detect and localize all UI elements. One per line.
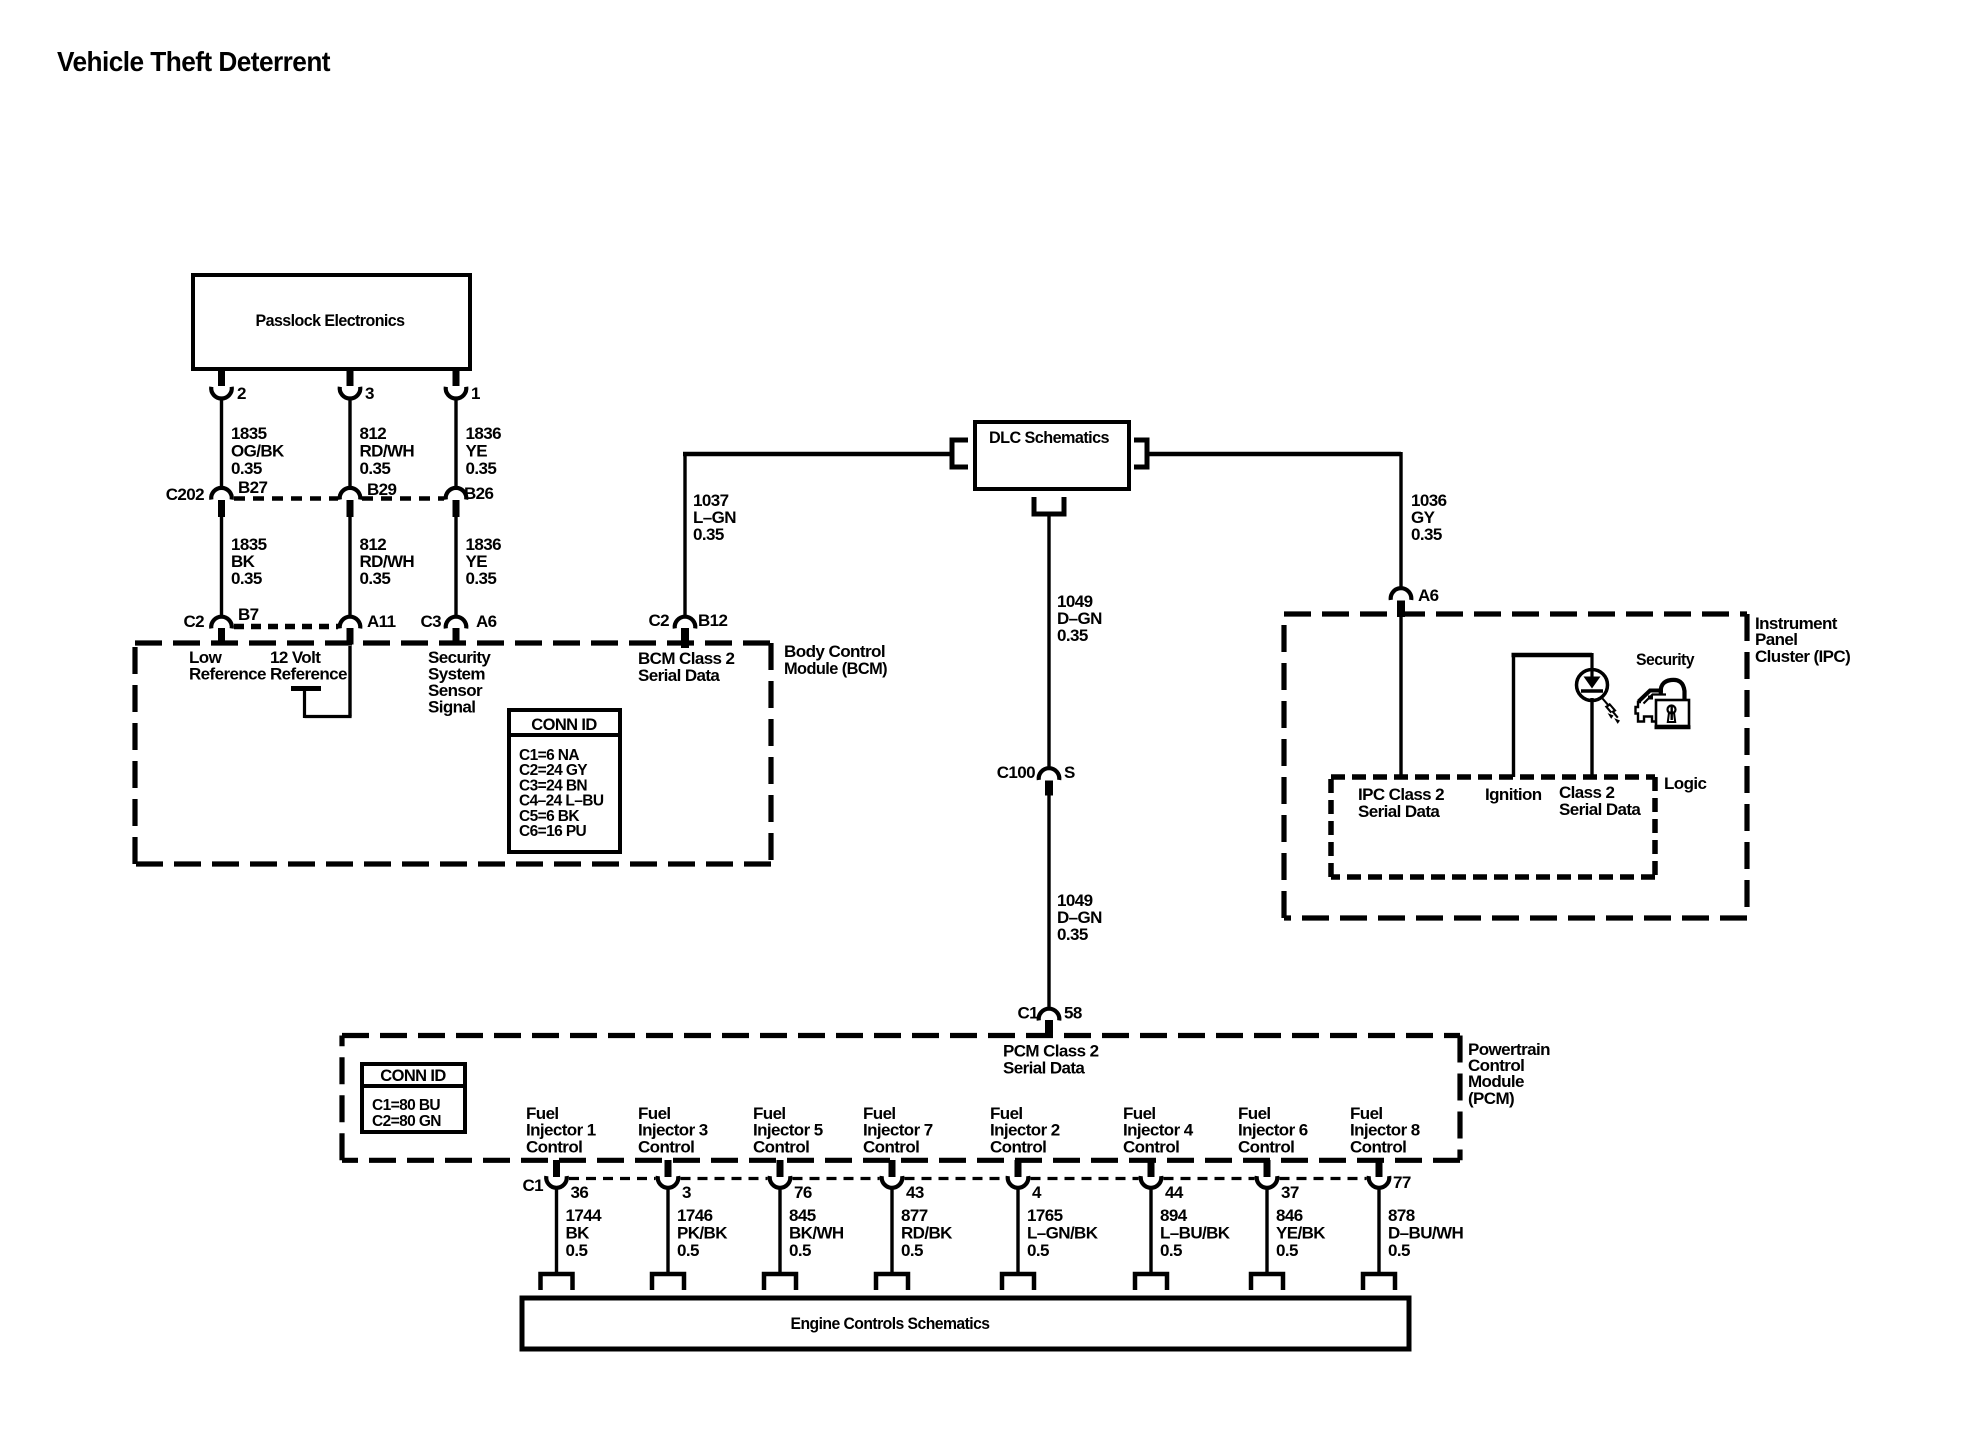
connector 58 stub: [1045, 1020, 1053, 1036]
svg-text:Serial Data: Serial Data: [1003, 1059, 1085, 1078]
connector C1 arc (PCM 58): [1039, 1009, 1060, 1021]
injector 6 stub: [1264, 1160, 1271, 1177]
svg-text:812: 812: [360, 424, 387, 443]
svg-text:Control: Control: [1350, 1137, 1406, 1156]
svg-text:0.35: 0.35: [466, 569, 497, 588]
svg-text:YE: YE: [466, 442, 488, 461]
svg-text:(PCM): (PCM): [1468, 1089, 1514, 1108]
svg-text:44: 44: [1165, 1183, 1184, 1202]
svg-text:C2: C2: [648, 611, 669, 630]
connector C1 cavity 77 cup: [1369, 1176, 1390, 1188]
injector 8 stub: [1376, 1160, 1383, 1177]
module box DLC Schematics: [975, 422, 1129, 489]
svg-text:Security: Security: [1636, 650, 1695, 669]
svg-text:878: 878: [1388, 1206, 1415, 1225]
svg-text:C202: C202: [166, 485, 204, 504]
wire DLC to C100 (1049): [1047, 514, 1050, 768]
injector 8 page bracket: [1363, 1274, 1395, 1290]
svg-text:77: 77: [1393, 1173, 1411, 1192]
12 Volt Reference terminal bar: [291, 686, 321, 691]
svg-text:0.5: 0.5: [1027, 1241, 1049, 1260]
injector 5 stub: [777, 1160, 784, 1177]
connector B12 stub: [681, 628, 689, 648]
svg-text:1765: 1765: [1027, 1206, 1063, 1225]
svg-text:C1: C1: [522, 1176, 543, 1195]
svg-text:A6: A6: [476, 612, 497, 631]
svg-text:0.35: 0.35: [1057, 925, 1088, 944]
connector A6 arc (IPC): [1391, 588, 1412, 600]
svg-text:877: 877: [901, 1206, 928, 1225]
svg-text:Control: Control: [753, 1137, 809, 1156]
svg-text:0.5: 0.5: [566, 1241, 588, 1260]
svg-text:C6=16 PU: C6=16 PU: [519, 823, 587, 840]
wire injector 2: [1016, 1188, 1019, 1273]
connector C202 cavity B26 arc: [446, 488, 467, 500]
connector C1 cavity 3 cup: [658, 1176, 679, 1188]
wire A11 internal to 12V terminal: [348, 646, 351, 717]
wire DLC to IPC (1036): [1147, 452, 1401, 457]
svg-text:1744: 1744: [566, 1206, 603, 1225]
svg-text:CONN ID: CONN ID: [380, 1067, 446, 1085]
connector C1 cavity 43 cup: [882, 1176, 903, 1188]
svg-text:Control: Control: [990, 1137, 1046, 1156]
connector C202 cavity B29 arc: [340, 488, 361, 500]
svg-text:76: 76: [794, 1183, 812, 1202]
BCM CONN ID table: [509, 710, 620, 852]
svg-text:RD/BK: RD/BK: [901, 1224, 953, 1243]
injector 6 page bracket: [1251, 1274, 1283, 1290]
svg-text:Serial Data: Serial Data: [1559, 800, 1641, 819]
svg-text:Vehicle Theft Deterrent: Vehicle Theft Deterrent: [57, 46, 330, 77]
wire injector 1: [555, 1188, 558, 1273]
wire DLC to BCM (1037): [683, 454, 686, 617]
svg-text:0.35: 0.35: [231, 459, 262, 478]
wire C100 to C1 (1049): [1047, 795, 1050, 1009]
svg-text:0.35: 0.35: [360, 569, 391, 588]
injector 5 page bracket: [764, 1274, 796, 1290]
wire 1836 YE to BCM: [454, 517, 457, 617]
wire ignition loop: [1512, 653, 1515, 777]
security LED circle: [1577, 670, 1608, 701]
injector 7 page bracket: [876, 1274, 908, 1290]
connector A6 stub (IPC): [1397, 601, 1405, 618]
connector C202 cavity B27 stub: [218, 500, 225, 517]
wire injector 5: [778, 1188, 781, 1273]
svg-text:L–GN/BK: L–GN/BK: [1027, 1224, 1099, 1243]
module box Body Control Module (BCM) dashed border: [135, 640, 771, 645]
svg-text:B7: B7: [238, 605, 259, 624]
connector C1 dashed line: [569, 1177, 656, 1180]
svg-text:37: 37: [1281, 1183, 1299, 1202]
svg-text:A11: A11: [367, 612, 396, 631]
svg-text:894: 894: [1160, 1206, 1188, 1225]
svg-text:Ignition: Ignition: [1485, 785, 1542, 804]
DLC right page bracket: [1134, 440, 1147, 467]
security LED cathode bar: [1581, 689, 1603, 693]
injector 3 page bracket: [652, 1274, 684, 1290]
svg-text:Control: Control: [1123, 1137, 1179, 1156]
connector C2-A11 bold dashed line: [234, 624, 338, 630]
wire pin 1 to C202: [454, 398, 457, 489]
pin 1 connector cup: [446, 387, 467, 399]
connector C2 cavity B7 arc: [211, 617, 232, 629]
wire injector 6: [1265, 1188, 1268, 1273]
wire pin 3 to C202: [348, 398, 351, 489]
svg-text:D–BU/WH: D–BU/WH: [1388, 1224, 1463, 1243]
svg-text:43: 43: [906, 1183, 924, 1202]
svg-text:OG/BK: OG/BK: [231, 442, 285, 461]
svg-text:B29: B29: [367, 480, 397, 499]
svg-text:A6: A6: [1418, 586, 1439, 605]
svg-text:C2=80 GN: C2=80 GN: [372, 1113, 441, 1130]
svg-text:Control: Control: [638, 1137, 694, 1156]
svg-text:Cluster (IPC): Cluster (IPC): [1755, 647, 1850, 666]
pin 2 stub (Passlock): [218, 368, 225, 386]
wire injector 8: [1377, 1188, 1380, 1273]
pin 3 connector cup: [340, 387, 361, 399]
injector 1 page bracket: [541, 1274, 573, 1290]
svg-text:4: 4: [1032, 1183, 1042, 1202]
svg-text:BK: BK: [566, 1224, 591, 1243]
connector cavity A11 arc: [340, 617, 361, 629]
svg-text:Reference: Reference: [189, 665, 266, 684]
connector C1 cavity 37 cup: [1257, 1176, 1278, 1188]
module box Passlock Electronics: [193, 275, 470, 369]
svg-text:C100: C100: [997, 763, 1035, 782]
svg-text:1746: 1746: [677, 1206, 713, 1225]
connector C202 dashed line: [234, 496, 338, 501]
svg-text:C1=80 BU: C1=80 BU: [372, 1097, 440, 1114]
svg-text:C2: C2: [183, 612, 204, 631]
svg-text:0.35: 0.35: [466, 459, 497, 478]
connector C100 stub: [1045, 781, 1053, 796]
connector B7 stub: [218, 628, 225, 645]
connector C202 cavity B27 arc: [211, 488, 232, 500]
injector 3 stub: [665, 1160, 672, 1177]
svg-text:YE/BK: YE/BK: [1276, 1224, 1326, 1243]
svg-text:Control: Control: [1238, 1137, 1294, 1156]
svg-text:Module (BCM): Module (BCM): [784, 659, 887, 678]
connector C2 cavity B12 arc: [675, 617, 696, 629]
svg-text:3: 3: [682, 1183, 691, 1202]
wire injector 4: [1149, 1188, 1152, 1273]
svg-text:Serial Data: Serial Data: [1358, 802, 1440, 821]
svg-text:0.35: 0.35: [693, 525, 724, 544]
svg-text:0.5: 0.5: [677, 1241, 699, 1260]
svg-text:3: 3: [365, 384, 374, 403]
connector C202 cavity B26 stub: [453, 500, 460, 517]
connector C1 cavity 36 cup: [546, 1176, 567, 1188]
svg-text:0.35: 0.35: [1057, 626, 1088, 645]
logic dashed box: [1331, 774, 1655, 780]
injector 7 stub: [889, 1160, 896, 1177]
DLC bottom page bracket: [1034, 497, 1064, 514]
svg-text:CONN ID: CONN ID: [531, 716, 597, 734]
svg-text:S: S: [1064, 763, 1075, 782]
connector C1 cavity 4 cup: [1008, 1176, 1029, 1188]
injector 4 stub: [1148, 1160, 1155, 1177]
svg-text:2: 2: [237, 384, 246, 403]
security LED light arrows: [1603, 699, 1618, 718]
injector 4 page bracket: [1135, 1274, 1167, 1290]
svg-text:L–BU/BK: L–BU/BK: [1160, 1224, 1231, 1243]
pin 3 stub (Passlock): [347, 368, 354, 386]
svg-text:B26: B26: [464, 484, 494, 503]
svg-text:Control: Control: [526, 1137, 582, 1156]
injector 1 stub: [553, 1160, 560, 1177]
pin 1 stub (Passlock): [453, 368, 460, 386]
svg-text:B27: B27: [238, 478, 268, 497]
wire LED to logic box: [1590, 698, 1593, 777]
svg-text:845: 845: [789, 1206, 816, 1225]
wire injector 7: [890, 1188, 893, 1273]
svg-text:Serial Data: Serial Data: [638, 666, 720, 685]
connector C1 cavity 76 cup: [770, 1176, 791, 1188]
svg-text:0.35: 0.35: [1411, 525, 1442, 544]
svg-text:0.5: 0.5: [789, 1241, 811, 1260]
wire injector 3: [666, 1188, 669, 1273]
svg-text:0.35: 0.35: [231, 569, 262, 588]
svg-text:58: 58: [1064, 1004, 1082, 1023]
injector 2 page bracket: [1002, 1274, 1034, 1290]
svg-text:846: 846: [1276, 1206, 1303, 1225]
svg-text:36: 36: [571, 1183, 589, 1202]
connector C1 cavity 44 cup: [1141, 1176, 1162, 1188]
module box Powertrain Control Module (PCM) dashed border: [342, 1033, 1460, 1038]
svg-text:Control: Control: [863, 1137, 919, 1156]
pin 2 connector cup: [211, 387, 232, 399]
svg-text:0.5: 0.5: [901, 1241, 923, 1260]
svg-text:0.5: 0.5: [1276, 1241, 1298, 1260]
PCM CONN ID table: [362, 1064, 465, 1132]
connector C202 cavity B29 stub: [347, 500, 354, 517]
svg-text:Engine Controls Schematics: Engine Controls Schematics: [791, 1314, 990, 1333]
connector C100 arc: [1039, 768, 1060, 780]
security indicator icon (car with padlock): [1636, 680, 1691, 727]
svg-text:C3: C3: [420, 612, 441, 631]
svg-text:1836: 1836: [466, 424, 502, 443]
injector 2 stub: [1015, 1160, 1022, 1177]
svg-text:PK/BK: PK/BK: [677, 1224, 728, 1243]
connector A11 stub: [347, 628, 354, 645]
DLC left page bracket: [952, 440, 968, 467]
connector C3 cavity A6 arc: [446, 617, 467, 629]
svg-text:B12: B12: [698, 611, 728, 630]
svg-text:Signal: Signal: [428, 698, 475, 717]
svg-text:Reference: Reference: [270, 665, 347, 684]
svg-text:0.35: 0.35: [360, 459, 391, 478]
module box Engine Controls Schematics: [522, 1298, 1409, 1349]
module box Instrument Panel Cluster (IPC) dashed border: [1284, 611, 1747, 616]
wire 1835 BK to BCM: [220, 517, 223, 617]
connector A6 stub: [453, 628, 460, 645]
wire 812 RD/WH to BCM: [348, 517, 351, 617]
security LED diode triangle: [1584, 677, 1601, 689]
wire pin 2 to C202: [220, 398, 223, 489]
svg-text:Passlock Electronics: Passlock Electronics: [256, 311, 405, 330]
svg-text:DLC Schematics: DLC Schematics: [989, 428, 1109, 447]
svg-text:RD/WH: RD/WH: [360, 442, 415, 461]
wire A6 to logic box: [1399, 617, 1402, 777]
svg-text:Logic: Logic: [1664, 774, 1706, 793]
svg-text:0.5: 0.5: [1160, 1241, 1182, 1260]
svg-text:0.5: 0.5: [1388, 1241, 1410, 1260]
svg-text:1835: 1835: [231, 424, 267, 443]
svg-text:BK/WH: BK/WH: [789, 1224, 844, 1243]
svg-text:1: 1: [471, 384, 480, 403]
svg-text:C1: C1: [1017, 1004, 1038, 1023]
